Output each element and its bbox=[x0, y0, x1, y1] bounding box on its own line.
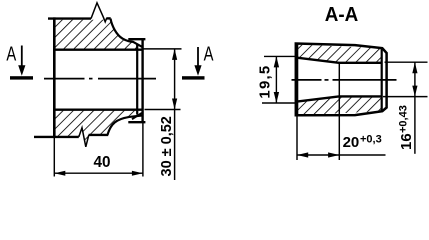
view 1: bore top line bbox=[53, 49, 143, 51]
section A-A: inner right vertical bbox=[381, 48, 383, 111]
view 1: ogee curve top bbox=[111, 19, 143, 47]
view 1: top break line (thin zigzag) bbox=[91, 3, 107, 22]
svg-text:A-A: A-A bbox=[325, 3, 359, 26]
dimension 20+0,3 bbox=[297, 63, 386, 160]
dimension 16+0,43 bbox=[383, 62, 428, 154]
svg-text:19,5: 19,5 bbox=[256, 65, 273, 99]
view 1: top hatching bbox=[55, 20, 143, 49]
section A-A: bore top bbox=[297, 58, 382, 63]
svg-text:40: 40 bbox=[93, 154, 110, 171]
svg-text:+0,3: +0,3 bbox=[360, 134, 382, 146]
svg-text:16: 16 bbox=[398, 133, 415, 150]
section A-A: top hatching bbox=[297, 45, 382, 63]
section A-A: bottom hatching bbox=[297, 96, 382, 115]
view 1: left face bbox=[53, 17, 56, 137]
view 1: bottom edge with break bbox=[34, 136, 79, 138]
svg-text:+0,43: +0,43 bbox=[397, 105, 409, 133]
section A-A: left face bbox=[296, 43, 299, 116]
svg-text:A: A bbox=[204, 42, 214, 65]
view 1: rim top cap bbox=[128, 38, 145, 40]
section A-A: bore bottom bbox=[297, 96, 382, 101]
view 1: centerline bbox=[44, 78, 156, 80]
dimension 30 ± 0,52 bbox=[143, 49, 182, 180]
view 1: body outline with break lines bbox=[48, 17, 91, 19]
view 1: rim bottom cap bbox=[128, 121, 145, 123]
view 1: ogee curve bottom bbox=[108, 116, 142, 135]
view 1: bottom hatching bbox=[55, 111, 137, 147]
dimension 40 bbox=[54, 121, 143, 177]
view 1: bore bottom line bbox=[53, 108, 143, 110]
svg-text:30 ± 0,52: 30 ± 0,52 bbox=[159, 116, 175, 176]
cutting plane mark A left bbox=[6, 42, 33, 79]
view 1: rim bottom chamfer diagonal bbox=[132, 113, 142, 119]
view 1: right end rim outer line bbox=[141, 39, 143, 122]
cutting plane mark A right bbox=[182, 42, 214, 79]
svg-text:A: A bbox=[6, 42, 16, 65]
section A-A: outline bbox=[296, 44, 387, 116]
dimension 19,5 bbox=[256, 56, 297, 103]
section A-A: centerline bbox=[292, 79, 397, 81]
view 1: right end rim inner line bbox=[136, 44, 138, 115]
view 1: bottom break line (thin zigzag) bbox=[79, 128, 89, 147]
svg-text:20: 20 bbox=[343, 134, 360, 151]
